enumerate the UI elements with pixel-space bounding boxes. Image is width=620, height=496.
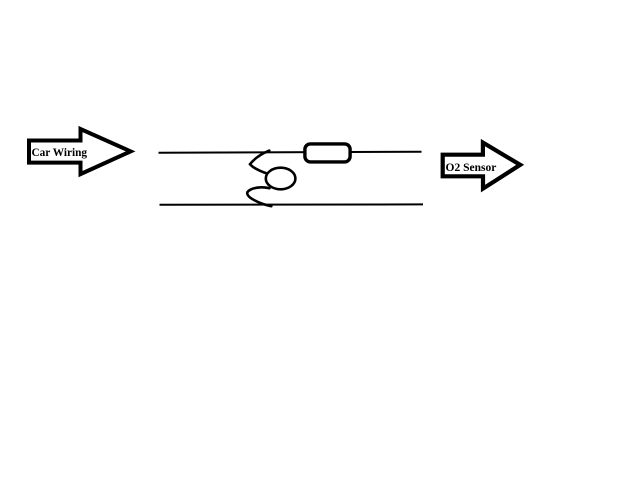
wire: upper splice squiggle from top wire to loop: [250, 151, 269, 174]
label: O2 Sensor: [446, 162, 497, 174]
svg-text:Car Wiring: Car Wiring: [32, 147, 88, 159]
wire: top signal wire from harness to O2 sensor: [159, 152, 422, 153]
label: Car Wiring: [32, 147, 88, 159]
svg-text:O2 Sensor: O2 Sensor: [446, 162, 497, 174]
arrow: O2 Sensor (block arrow pointing right): [443, 143, 521, 189]
resistor R1 inline on top wire: [305, 144, 350, 162]
wire: lower splice squiggle from loop to bottom wire: [247, 187, 271, 206]
node: wire loop (coiled splice): [266, 168, 296, 190]
arrow: Car Wiring (block arrow pointing right): [29, 129, 131, 174]
wire: bottom wire from harness to O2 sensor: [160, 203, 424, 205]
